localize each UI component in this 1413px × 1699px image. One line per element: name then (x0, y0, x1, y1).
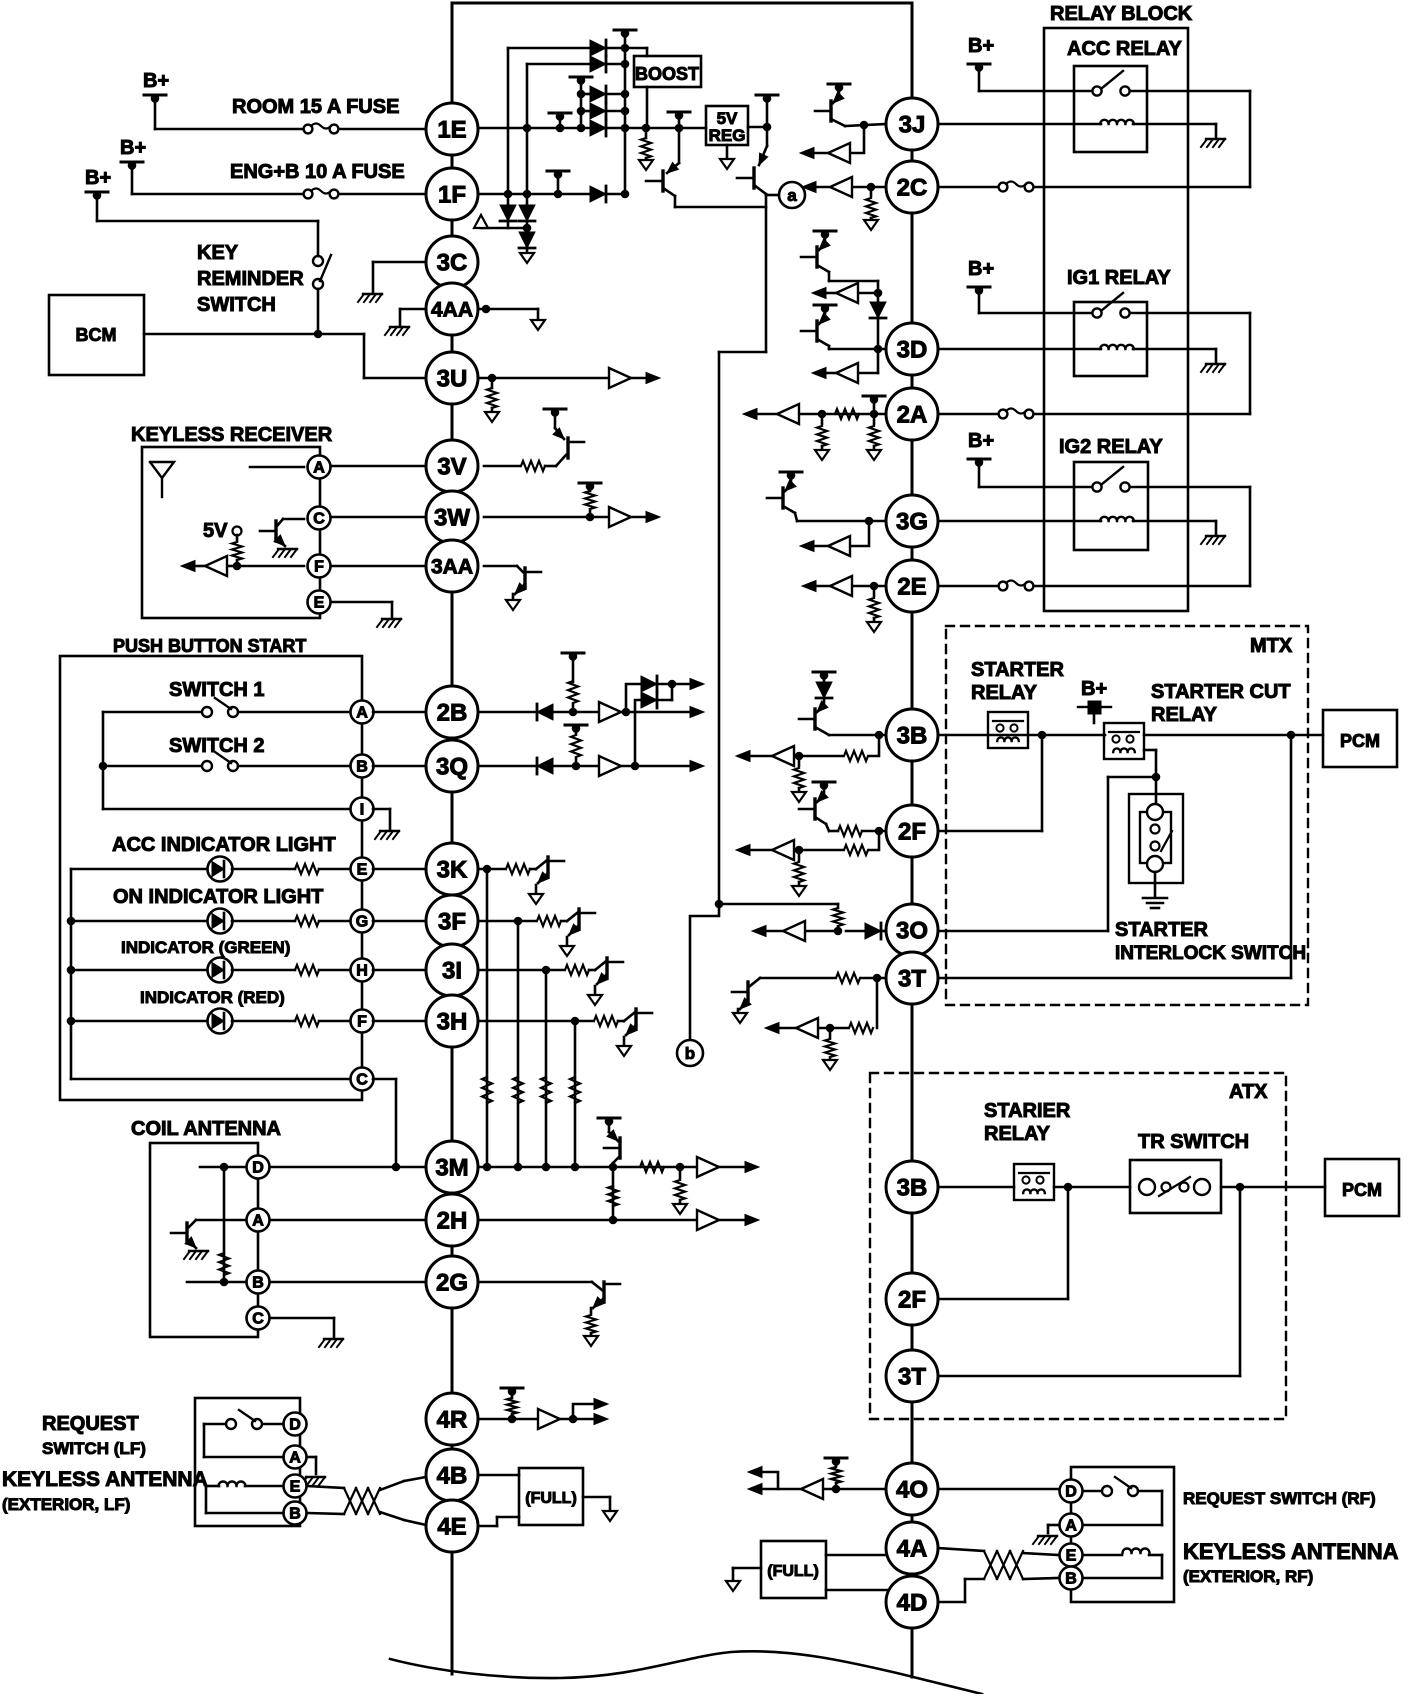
svg-text:A: A (356, 705, 368, 722)
svg-text:I: I (360, 802, 364, 819)
svg-text:(FULL): (FULL) (525, 1490, 577, 1507)
svg-text:B+: B+ (968, 258, 994, 280)
svg-text:4B: 4B (437, 1462, 468, 1489)
svg-text:3T: 3T (898, 965, 926, 992)
svg-text:B: B (252, 1275, 264, 1292)
svg-text:3M: 3M (435, 1154, 468, 1181)
svg-text:3G: 3G (896, 508, 928, 535)
svg-text:D: D (289, 1417, 301, 1434)
svg-text:H: H (356, 963, 368, 980)
svg-text:A: A (252, 1213, 264, 1230)
svg-text:B+: B+ (968, 430, 994, 452)
svg-text:RELAY: RELAY (984, 1123, 1051, 1145)
svg-text:RELAY BLOCK: RELAY BLOCK (1050, 3, 1193, 25)
svg-text:C: C (252, 1311, 264, 1328)
svg-text:1F: 1F (438, 181, 466, 208)
svg-text:3J: 3J (899, 111, 926, 138)
svg-text:PCM: PCM (1340, 731, 1380, 751)
svg-text:IG1 RELAY: IG1 RELAY (1067, 267, 1171, 289)
svg-text:2A: 2A (897, 401, 928, 428)
svg-text:KEYLESS ANTENNA: KEYLESS ANTENNA (1183, 1539, 1399, 1564)
svg-text:G: G (356, 914, 368, 931)
svg-text:a: a (787, 186, 797, 205)
svg-text:(FULL): (FULL) (767, 1563, 819, 1580)
svg-text:INDICATOR (GREEN): INDICATOR (GREEN) (121, 938, 290, 957)
svg-text:KEYLESS ANTENNA: KEYLESS ANTENNA (2, 1468, 208, 1491)
svg-text:B: B (289, 1506, 301, 1523)
svg-text:B+: B+ (968, 35, 994, 57)
svg-text:STARTER: STARTER (1115, 919, 1209, 941)
svg-text:3H: 3H (437, 1008, 468, 1035)
svg-text:TR SWITCH: TR SWITCH (1138, 1131, 1249, 1153)
svg-text:4O: 4O (896, 1476, 928, 1503)
svg-text:PUSH BUTTON START: PUSH BUTTON START (113, 636, 306, 656)
svg-text:A: A (1065, 1518, 1077, 1535)
svg-text:ATX: ATX (1229, 1081, 1268, 1103)
svg-text:3Q: 3Q (436, 753, 468, 780)
svg-text:SWITCH (LF): SWITCH (LF) (42, 1439, 146, 1458)
svg-text:3B: 3B (897, 722, 928, 749)
svg-text:(EXTERIOR, LF): (EXTERIOR, LF) (2, 1495, 130, 1514)
svg-text:REQUEST: REQUEST (42, 1413, 139, 1435)
svg-text:IG2 RELAY: IG2 RELAY (1059, 436, 1163, 458)
svg-text:ENG+B 10 A FUSE: ENG+B 10 A FUSE (230, 161, 405, 183)
svg-text:REG: REG (709, 126, 746, 145)
svg-text:ACC RELAY: ACC RELAY (1067, 38, 1182, 60)
svg-text:B+: B+ (143, 70, 169, 92)
svg-text:A: A (313, 460, 325, 477)
svg-text:E: E (357, 862, 368, 879)
svg-text:BOOST: BOOST (635, 64, 699, 84)
svg-text:ACC INDICATOR LIGHT: ACC INDICATOR LIGHT (112, 834, 336, 856)
svg-text:2B: 2B (437, 699, 468, 726)
svg-text:B+: B+ (120, 137, 146, 159)
svg-text:B: B (1065, 1571, 1077, 1588)
svg-text:2E: 2E (897, 573, 926, 600)
svg-text:COIL ANTENNA: COIL ANTENNA (131, 1118, 281, 1140)
svg-text:KEYLESS RECEIVER: KEYLESS RECEIVER (131, 424, 333, 446)
svg-text:2F: 2F (898, 1286, 926, 1313)
svg-text:2H: 2H (437, 1207, 468, 1234)
svg-text:5V: 5V (203, 520, 228, 542)
svg-text:4E: 4E (437, 1513, 466, 1540)
svg-text:2G: 2G (436, 1269, 468, 1296)
svg-text:C: C (356, 1072, 368, 1089)
svg-text:STARTER: STARTER (971, 659, 1065, 681)
svg-text:D: D (1065, 1484, 1077, 1501)
svg-text:C: C (313, 511, 325, 528)
svg-text:3O: 3O (896, 917, 928, 944)
svg-text:SWITCH: SWITCH (197, 294, 276, 316)
svg-text:D: D (252, 1160, 264, 1177)
svg-text:MTX: MTX (1250, 635, 1293, 657)
svg-text:3I: 3I (442, 957, 462, 984)
svg-text:3V: 3V (437, 453, 466, 480)
svg-text:KEY: KEY (197, 242, 239, 264)
svg-text:3C: 3C (437, 249, 468, 276)
svg-text:RELAY: RELAY (1151, 704, 1218, 726)
svg-text:4A: 4A (897, 1535, 928, 1562)
svg-text:1E: 1E (437, 116, 466, 143)
svg-text:F: F (357, 1014, 367, 1031)
svg-text:3D: 3D (897, 336, 928, 363)
svg-text:2F: 2F (898, 818, 926, 845)
svg-text:4AA: 4AA (431, 298, 473, 321)
svg-text:PCM: PCM (1342, 1180, 1382, 1200)
svg-text:3F: 3F (438, 908, 466, 935)
svg-text:3W: 3W (434, 504, 470, 531)
svg-text:4R: 4R (437, 1406, 468, 1433)
svg-text:SWITCH 1: SWITCH 1 (169, 679, 265, 701)
svg-text:E: E (1066, 1548, 1077, 1565)
svg-text:REMINDER: REMINDER (197, 268, 304, 290)
svg-text:F: F (314, 559, 324, 576)
svg-text:4D: 4D (897, 1589, 928, 1616)
svg-text:3B: 3B (897, 1174, 928, 1201)
svg-text:(EXTERIOR, RF): (EXTERIOR, RF) (1183, 1567, 1313, 1586)
svg-text:3K: 3K (437, 856, 468, 883)
svg-text:ROOM 15 A FUSE: ROOM 15 A FUSE (232, 96, 399, 118)
svg-text:REQUEST SWITCH (RF): REQUEST SWITCH (RF) (1183, 1489, 1376, 1508)
svg-text:STARTER CUT: STARTER CUT (1151, 681, 1291, 703)
svg-text:b: b (685, 1044, 695, 1063)
svg-text:STARIER: STARIER (984, 1100, 1071, 1122)
svg-text:B+: B+ (1081, 678, 1107, 700)
svg-text:E: E (290, 1479, 301, 1496)
svg-text:3T: 3T (898, 1363, 926, 1390)
svg-text:3U: 3U (437, 365, 468, 392)
svg-text:ON INDICATOR LIGHT: ON INDICATOR LIGHT (113, 886, 323, 908)
svg-text:INTERLOCK SWITCH: INTERLOCK SWITCH (1115, 943, 1306, 964)
svg-text:RELAY: RELAY (971, 682, 1038, 704)
svg-text:3AA: 3AA (431, 555, 473, 578)
svg-text:INDICATOR (RED): INDICATOR (RED) (140, 988, 285, 1007)
svg-text:B: B (356, 759, 368, 776)
svg-text:E: E (314, 595, 325, 612)
svg-text:A: A (289, 1450, 301, 1467)
svg-text:2C: 2C (897, 174, 928, 201)
svg-text:BCM: BCM (76, 325, 117, 345)
svg-text:B+: B+ (85, 167, 111, 189)
